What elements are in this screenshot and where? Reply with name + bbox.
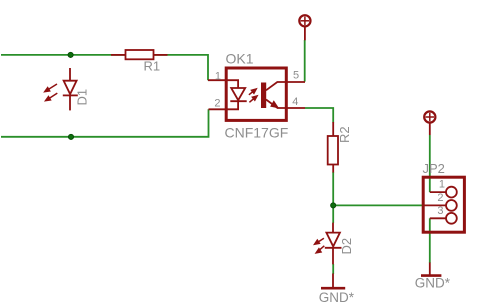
- +V supply symbol above JP2: [424, 111, 435, 135]
- svg-text:3: 3: [437, 205, 443, 217]
- svg-text:D2: D2: [339, 238, 354, 255]
- JP2 pin 3 stub: [430, 217, 446, 219]
- JP2 pin circle 3: [446, 213, 457, 224]
- OK1 light arrows: [249, 89, 257, 102]
- OK1 emitter arrowhead: [271, 101, 278, 107]
- D2 emission arrows: [315, 238, 325, 253]
- svg-text:OK1: OK1: [226, 50, 254, 66]
- wire top-left horizontal to OK1 pin1: [1, 55, 208, 80]
- wire D2 to GND: [332, 264, 334, 274]
- svg-text:CNF17GF: CNF17GF: [225, 125, 289, 141]
- svg-text:R2: R2: [337, 126, 352, 143]
- svg-text:5: 5: [293, 69, 299, 81]
- ground GND* below JP2: [421, 263, 441, 276]
- wire OK1 pin4 to R2: [305, 108, 333, 123]
- OK1 internal LED cathode bar: [230, 100, 246, 102]
- OK1 internal LED cathode path: [227, 101, 238, 109]
- svg-text:R1: R1: [144, 59, 161, 74]
- LED D2: [325, 223, 342, 265]
- wire R2 to junction: [332, 172, 334, 205]
- wire junction to JP2 pin2: [333, 204, 424, 206]
- OK1 photo-transistor base bar: [261, 83, 266, 109]
- resistor R1: [111, 50, 168, 59]
- opto-coupler OK1 box: [226, 68, 286, 120]
- JP2 pin 1 stub: [430, 191, 446, 193]
- JP2 pin circle 1: [446, 187, 457, 198]
- svg-text:JP2: JP2: [423, 161, 445, 176]
- wire JP2 pin3 to GND: [429, 218, 431, 263]
- OK1 pin 1 stub: [208, 79, 227, 81]
- svg-text:GND*: GND*: [415, 275, 451, 290]
- svg-text:4: 4: [292, 96, 298, 108]
- connector JP2 box: [423, 177, 464, 232]
- junction node dot top-left: [68, 52, 73, 57]
- JP2 pin circle 2: [446, 200, 457, 211]
- +V supply symbol above OK1: [299, 15, 310, 40]
- svg-text:2: 2: [437, 192, 443, 204]
- svg-text:1: 1: [439, 179, 445, 191]
- ground GND* below D2: [321, 274, 345, 289]
- OK1 internal LED anode path: [227, 80, 238, 88]
- OK1 pin 2 stub: [209, 108, 228, 110]
- wire +V to OK1 pin5: [304, 40, 306, 82]
- junction node dot R2/D2/JP2: [331, 203, 336, 208]
- OK1 collector path to pin 5: [266, 82, 305, 90]
- wire +V to JP2 pin1: [429, 135, 431, 192]
- wire junction to D2: [332, 205, 334, 223]
- JP2 pin 2 stub: [424, 204, 446, 206]
- svg-text:1: 1: [215, 70, 221, 82]
- svg-text:GND*: GND*: [319, 290, 355, 303]
- junction node dot bottom-left: [68, 134, 73, 139]
- OK1 internal LED triangle: [231, 88, 245, 100]
- resistor R2: [328, 122, 338, 173]
- svg-text:D1: D1: [75, 89, 90, 106]
- OK1 emitter path to pin 4: [266, 100, 305, 109]
- D1 emission arrows: [45, 84, 58, 101]
- wire bottom-left horizontal to OK1 pin2: [1, 109, 209, 137]
- LED D1: [63, 68, 78, 110]
- svg-text:2: 2: [214, 97, 220, 109]
